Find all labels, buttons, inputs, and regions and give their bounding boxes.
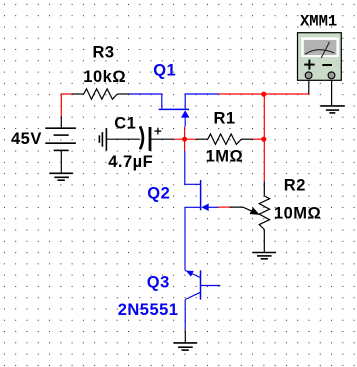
svg-text:45V: 45V bbox=[11, 130, 42, 148]
svg-text:C1: C1 bbox=[114, 114, 136, 132]
svg-text:Q1: Q1 bbox=[153, 61, 176, 79]
svg-text:R2: R2 bbox=[284, 177, 306, 195]
svg-text:10kΩ: 10kΩ bbox=[83, 68, 126, 86]
svg-text:XMM1: XMM1 bbox=[300, 12, 337, 30]
svg-text:2N5551: 2N5551 bbox=[118, 301, 179, 319]
svg-text:1MΩ: 1MΩ bbox=[206, 147, 244, 165]
svg-text:Q3: Q3 bbox=[147, 273, 170, 291]
svg-text:R1: R1 bbox=[214, 110, 236, 128]
svg-text:Q2: Q2 bbox=[147, 184, 170, 202]
svg-text:R3: R3 bbox=[93, 43, 115, 61]
svg-text:4.7µF: 4.7µF bbox=[108, 153, 153, 171]
svg-text:10MΩ: 10MΩ bbox=[274, 205, 321, 223]
